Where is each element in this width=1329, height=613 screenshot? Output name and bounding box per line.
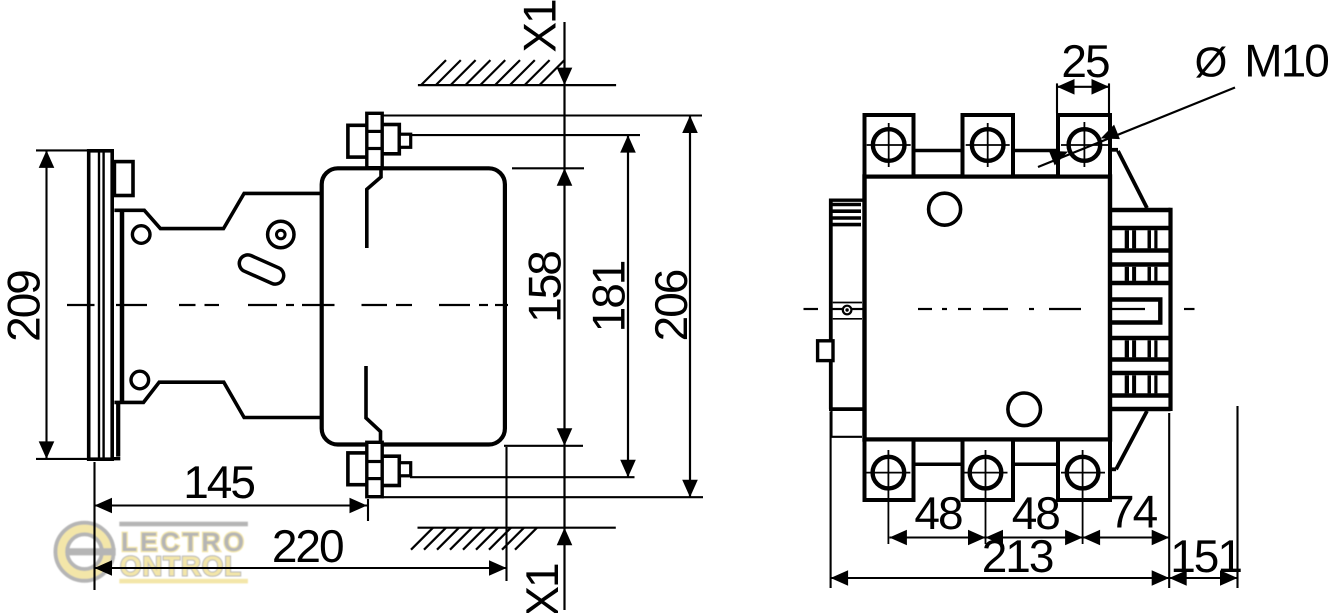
hatch surface line top	[418, 84, 616, 86]
svg-text:74: 74	[1109, 485, 1158, 537]
dim 158 extension bottom	[504, 445, 583, 447]
dim 220 extension right	[505, 447, 507, 581]
M10 leader line	[1038, 88, 1235, 168]
dim 151 line	[1169, 577, 1237, 579]
connector between bottom blocks 1-2	[914, 463, 963, 467]
terminal screw bottom right block	[379, 456, 399, 485]
dim 213 line	[831, 577, 1170, 579]
bottom terminal block 2	[963, 440, 1014, 501]
top terminal block 2	[963, 115, 1014, 177]
rail bottom edge	[829, 407, 864, 411]
dim 25 extensions	[1056, 83, 1058, 113]
screw bottom 1	[873, 457, 905, 489]
hatch strokes bottom	[411, 528, 433, 550]
dim 145 extension left	[93, 462, 95, 590]
diagonal bottom right	[1116, 411, 1147, 469]
plate lamination line 1	[98, 152, 100, 458]
plate notch top	[114, 162, 133, 196]
terminal screw top stem	[367, 113, 382, 167]
stem crossbar 4	[367, 477, 382, 480]
arc chute vent bars	[1125, 230, 1129, 248]
screw top 1	[873, 129, 905, 161]
dim 206 extension bottom	[382, 496, 704, 498]
dim 25 line	[1057, 86, 1109, 88]
rail top edge	[829, 198, 864, 201]
rail center dot	[843, 306, 852, 315]
dim 209 extension top	[36, 149, 88, 151]
flange outline top	[114, 193, 321, 228]
screw top 2	[972, 129, 1004, 161]
terminal screw bottom left block	[348, 453, 370, 485]
dim 220 line	[95, 567, 507, 569]
rail spring lines	[833, 203, 862, 206]
svg-text:X1: X1	[516, 564, 568, 613]
plate lower strip	[116, 403, 120, 457]
plate lamination line 2	[102, 152, 104, 458]
dim X1-158-X1 vertical line	[563, 22, 565, 610]
rail lower lines	[830, 410, 832, 437]
terminal screw bottom tab	[399, 463, 410, 476]
terminal screw top tab	[399, 134, 410, 147]
hatch surface line bottom	[418, 527, 616, 529]
bolt hole top	[132, 226, 150, 244]
svg-text:158: 158	[519, 252, 571, 323]
svg-text:25: 25	[1061, 35, 1109, 87]
arc chute slot	[1112, 297, 1163, 301]
svg-text:ONTROL: ONTROL	[120, 551, 242, 582]
stem crossbar 2	[367, 147, 382, 150]
dim 213-151 extension left	[830, 412, 832, 589]
svg-text:Ø: Ø	[1195, 39, 1227, 86]
step between top blocks 2-3	[1013, 149, 1058, 153]
X1 bottom arrow	[557, 528, 573, 546]
dim 145 line	[95, 504, 368, 506]
movable contact line bottom	[366, 366, 381, 443]
bottom terminal block 3	[1058, 440, 1110, 501]
svg-text:206: 206	[645, 270, 697, 341]
dim 48-48-74 line	[889, 536, 1169, 538]
dim 145 extension right	[367, 499, 369, 521]
dim 181 extension bottom	[410, 476, 635, 478]
rail middle lines	[833, 302, 862, 304]
rail left edge	[829, 199, 833, 409]
angled slot	[237, 252, 287, 287]
dim 158 arrows	[557, 168, 573, 186]
body hole bottom	[1008, 393, 1041, 426]
center line left view	[67, 304, 95, 306]
arc chute outer edge	[1168, 208, 1172, 411]
arc chute bands	[1112, 208, 1171, 213]
step between top blocks 1-2	[914, 149, 963, 153]
terminal screw bottom stem	[367, 442, 382, 496]
screw bottom 3	[1067, 457, 1099, 489]
top terminal block 1	[865, 115, 914, 177]
body hole top	[929, 193, 961, 225]
svg-text:M10: M10	[1244, 35, 1328, 87]
dim 158 extension top	[512, 167, 584, 169]
dim 213-151 extension right	[1236, 406, 1238, 588]
svg-text:151: 151	[1170, 530, 1241, 582]
mounting plate	[89, 151, 113, 459]
dim 206 extension top	[383, 114, 702, 116]
svg-text:213: 213	[982, 530, 1053, 582]
rail tab	[818, 341, 833, 361]
movable contact line top	[367, 170, 381, 249]
dim 181 extension top	[411, 134, 640, 136]
terminal screw top left block	[348, 125, 370, 157]
dim 209 extension bottom	[36, 458, 88, 460]
bottom terminal block 1	[865, 440, 914, 501]
svg-text:X1: X1	[514, 0, 566, 53]
body column edge	[120, 210, 125, 402]
top terminal block 3	[1058, 115, 1110, 177]
pivot double circle	[268, 221, 294, 247]
main body rect	[865, 177, 1111, 440]
svg-text:209: 209	[0, 271, 50, 342]
stem crossbar 3	[367, 460, 382, 463]
bolt hole bottom	[131, 371, 149, 389]
dim 206 line	[689, 116, 691, 498]
dim 181 line	[627, 135, 629, 477]
flange outline bottom	[114, 382, 321, 417]
center line right view	[804, 308, 819, 310]
body step bottom right	[1110, 467, 1116, 471]
dim 48-48-74 extensions	[887, 450, 889, 544]
svg-text:220: 220	[272, 520, 343, 572]
terminal screw top right block	[379, 125, 399, 154]
screw bottom 2	[970, 457, 1002, 489]
dim 209 line	[45, 150, 47, 459]
hatch strokes top	[421, 60, 446, 85]
diagonal top right	[1118, 151, 1147, 208]
svg-text:48: 48	[914, 487, 962, 539]
svg-text:181: 181	[583, 261, 635, 332]
connector between bottom blocks 2-3	[1013, 463, 1058, 467]
dim 213-151 extension middle	[1168, 413, 1170, 588]
logo electro-control watermark	[0, 0, 1, 1]
body step top right	[1110, 148, 1118, 152]
stem crossbar 1	[367, 130, 382, 133]
screw top 3	[1069, 129, 1101, 161]
svg-text:145: 145	[183, 456, 254, 508]
coil housing rounded rect	[322, 168, 505, 444]
X1 top arrow	[557, 68, 573, 86]
